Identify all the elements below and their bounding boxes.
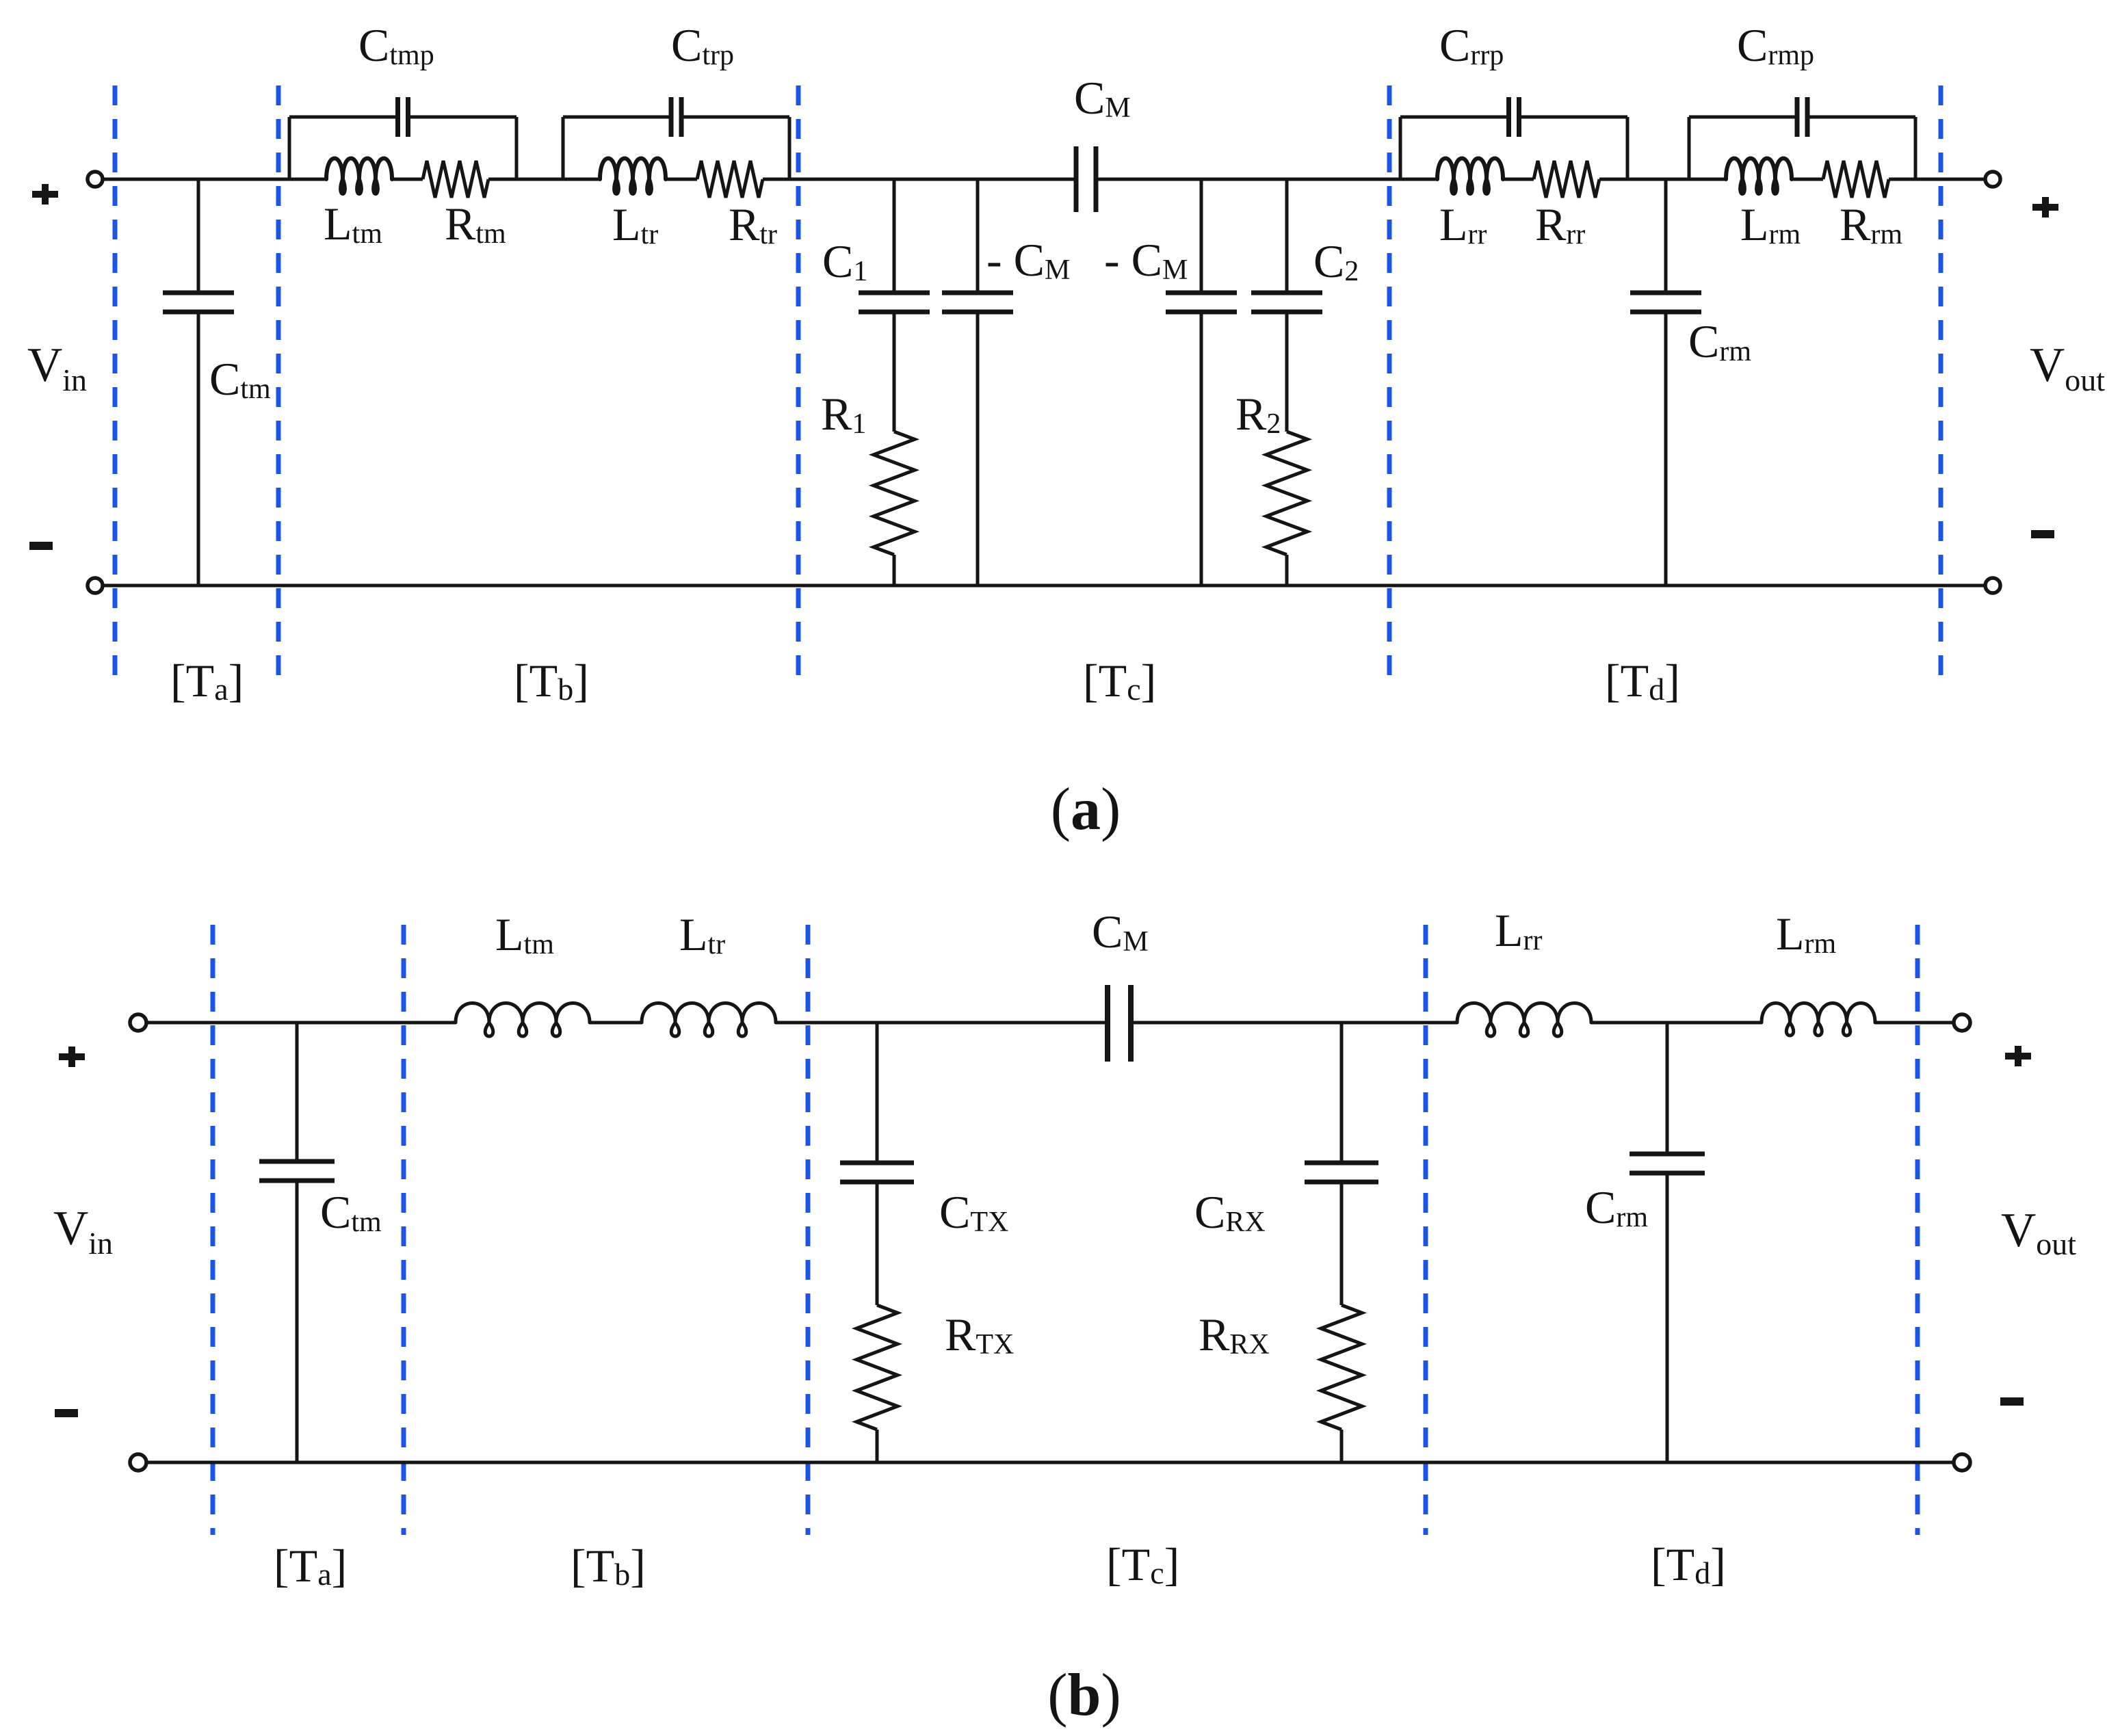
svg-text:[Tc]: [Tc] xyxy=(1083,655,1156,707)
svg-text:[Tc]: [Tc] xyxy=(1106,1538,1179,1590)
svg-text:[Ta]: [Ta] xyxy=(170,655,244,707)
svg-text:(a): (a) xyxy=(1051,776,1121,843)
svg-text:[Td]: [Td] xyxy=(1651,1538,1726,1590)
svg-text:[Ta]: [Ta] xyxy=(274,1540,347,1592)
svg-text:[Td]: [Td] xyxy=(1605,655,1680,707)
svg-text:(b): (b) xyxy=(1047,1662,1121,1728)
svg-text:[Tb]: [Tb] xyxy=(571,1540,646,1592)
svg-text:[Tb]: [Tb] xyxy=(514,655,589,707)
